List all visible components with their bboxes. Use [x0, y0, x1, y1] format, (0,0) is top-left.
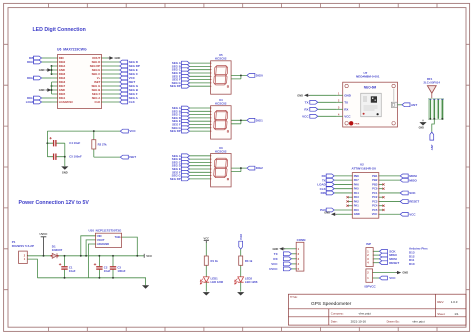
- segment G: [215, 119, 226, 121]
- segment DP: [227, 86, 228, 87]
- svg-text:CLK: CLK: [95, 100, 101, 104]
- segment D: [215, 128, 226, 130]
- regulator U10 body: [95, 233, 122, 247]
- wire output rail to VCC: [59, 255, 145, 257]
- node SEG D (net flag, U6 right): [102, 60, 139, 64]
- svg-text:LOAD/CS#: LOAD/CS#: [59, 100, 74, 104]
- node SEG E (net flag, U5 left pin): [172, 74, 211, 78]
- svg-text:GND: GND: [273, 247, 279, 251]
- diode D1 symbol: [51, 253, 59, 258]
- segment A: [216, 110, 227, 112]
- ground flag (LED2): [237, 292, 244, 295]
- node CLK (net flag, U6 right): [102, 100, 136, 104]
- ground rail: [37, 278, 145, 285]
- ground flag at U6 pin GND (row 9): [39, 88, 53, 92]
- svg-text:PA1: PA1: [354, 204, 360, 208]
- svg-text:PA4: PA4: [354, 191, 360, 195]
- connector P1 body: [19, 251, 28, 263]
- svg-text:VCC: VCC: [271, 262, 278, 266]
- svg-text:U10 NCP1117ST50T3G: U10 NCP1117ST50T3G: [89, 228, 123, 232]
- node SCK (net flag, U2 right): [379, 191, 417, 195]
- segment D: [215, 176, 226, 178]
- wire P1 pin2 to input rail: [27, 255, 51, 257]
- node SEG G (net flag, U6 right): [102, 84, 139, 88]
- svg-text:DIN: DIN: [321, 191, 326, 195]
- node SEG G (net flag, U4 left pin): [172, 126, 211, 130]
- segment E: [214, 121, 216, 129]
- power LED on module: [349, 121, 353, 125]
- filter block of RF1: [428, 98, 443, 119]
- svg-text:R1 1k: R1 1k: [211, 259, 219, 263]
- wire U6 GND bracket rows 7-10: [51, 82, 53, 94]
- svg-text:TX: TX: [274, 252, 278, 256]
- title block text: [290, 296, 459, 323]
- svg-text:100nF: 100nF: [117, 269, 125, 273]
- segment F: [214, 159, 216, 167]
- svg-text:PC4: PC4: [372, 204, 378, 208]
- svg-text:ATTINY1634R-SU: ATTINY1634R-SU: [352, 166, 377, 170]
- svg-text:Drawn By:: Drawn By:: [387, 320, 400, 324]
- svg-text:SEG DP: SEG DP: [170, 129, 181, 133]
- svg-text:2LC+55F014: 2LC+55F014: [424, 80, 441, 84]
- svg-text:VCC: VCC: [389, 276, 396, 280]
- svg-text:vlrm.prjct: vlrm.prjct: [359, 312, 371, 316]
- ground flag at U7 GND: [297, 93, 336, 97]
- svg-text:PB1: PB1: [372, 174, 378, 178]
- svg-text:10uF: 10uF: [69, 269, 76, 273]
- wire LED to ground: [240, 282, 242, 291]
- segment G: [215, 74, 226, 76]
- svg-text:DIG0: DIG0: [27, 60, 34, 64]
- node SCK (net flag, ISP pin 1): [373, 249, 396, 253]
- node DIN (net flag, U2 left): [321, 191, 353, 195]
- junction (common cathode U5): [240, 74, 242, 76]
- svg-text:ANT: ANT: [411, 103, 417, 107]
- segment B: [226, 112, 228, 120]
- svg-text:PA6: PA6: [354, 182, 360, 186]
- svg-text:ISET: ISET: [129, 155, 136, 159]
- wire LED to ground: [205, 282, 207, 291]
- svg-text:TAB: TAB: [115, 235, 120, 239]
- svg-text:KCSC02: KCSC02: [215, 57, 227, 61]
- segment G: [215, 167, 226, 169]
- svg-text:PB3: PB3: [372, 182, 378, 186]
- node DIG0 (net flag, U5 common): [247, 74, 263, 78]
- node MISO (net flag, U2 right): [379, 178, 418, 182]
- svg-text:GND: GND: [62, 171, 68, 175]
- node LOAD (net flag, U2 left): [317, 183, 352, 187]
- svg-text:R2 27k: R2 27k: [98, 143, 107, 147]
- capacitor C3 100nF: [110, 255, 126, 279]
- capacitor C4 10uF: [47, 137, 80, 146]
- IC U6 MAX7219CWG body: [57, 55, 102, 109]
- svg-text:C5 100nF: C5 100nF: [69, 155, 82, 159]
- node SEG B (net flag, U3 left pin): [172, 157, 211, 161]
- svg-text:PC5: PC5: [372, 208, 378, 212]
- GPS module U7 body: [343, 82, 398, 127]
- svg-text:1/1: 1/1: [454, 312, 459, 316]
- power flag VCC (LED1 branch): [204, 237, 210, 243]
- node VCC (net flag, U2 right): [379, 212, 417, 216]
- node SEG A (net flag, U4 left pin): [172, 106, 211, 110]
- svg-text:ISPVCC: ISPVCC: [365, 284, 377, 288]
- svg-text:TX: TX: [344, 100, 348, 104]
- svg-text:DIG0: DIG0: [256, 74, 263, 78]
- node ANT (vertical net flag below RF1): [430, 132, 434, 150]
- svg-text:REV:: REV:: [437, 300, 444, 304]
- no-connect U2 left row 7: [346, 200, 352, 202]
- wire U10 VIN to input rail: [81, 236, 96, 256]
- capacitor C5 100nF: [47, 154, 82, 160]
- svg-text:UVCC: UVCC: [269, 267, 278, 271]
- node RX (net flag, U2 left): [322, 174, 353, 178]
- segment A: [216, 65, 227, 67]
- node TX (net flag, U7): [305, 100, 336, 104]
- svg-text:U6 MAX7219CWG: U6 MAX7219CWG: [57, 48, 87, 52]
- svg-text:Sheet:: Sheet:: [437, 312, 445, 316]
- svg-text:PWR: PWR: [355, 123, 360, 125]
- ground flag at CONN pin 1: [273, 247, 297, 251]
- node SEG C (net flag, U5 left pin): [172, 68, 211, 72]
- svg-text:PA6: PA6: [239, 234, 243, 240]
- node PA6 (vertical net flag, LED2 branch): [239, 234, 243, 250]
- segment E: [214, 76, 216, 84]
- svg-text:PA2: PA2: [354, 199, 360, 203]
- no-connect U2 left row 6: [346, 196, 352, 198]
- svg-text:NEO#M8M-0-001: NEO#M8M-0-001: [356, 75, 380, 79]
- node MISO (net flag, ISP pin 2): [373, 253, 397, 257]
- wire right leg of caps to ground: [64, 143, 66, 166]
- pin 2 TX of U7: [336, 100, 348, 105]
- LED LED2 LED 1206: [235, 277, 258, 285]
- resistor R1 1k: [204, 243, 218, 277]
- ground flag below RF1 filter: [419, 120, 427, 130]
- svg-text:C4 10uF: C4 10uF: [69, 141, 80, 145]
- node SEG C (net flag, U3 left pin): [172, 160, 211, 164]
- node VCC (net flag, CONN pin 4): [271, 262, 296, 266]
- ground flag (C4/C5): [61, 166, 68, 174]
- node DIG1 (net flag, U4 common): [247, 118, 263, 122]
- svg-text:CLK: CLK: [129, 100, 136, 104]
- node MOSI (net flag, ISP pin 3): [373, 257, 397, 261]
- ground flag at U6 pin GND (row 4): [39, 68, 53, 72]
- node ISET (net flag): [120, 155, 136, 159]
- svg-text:ANT: ANT: [430, 144, 434, 150]
- segment B: [226, 159, 228, 167]
- svg-text:MISO: MISO: [409, 178, 417, 182]
- svg-text:PA3: PA3: [354, 195, 360, 199]
- node DIG1 (net flag, U6 left): [27, 96, 51, 100]
- svg-text:VCC: VCC: [204, 237, 210, 241]
- antenna RF1 symbol: [427, 86, 436, 99]
- node SEG F (net flag, U3 left pin): [172, 170, 210, 174]
- title block frame: [288, 294, 466, 325]
- no-connect U2 right row 3: [379, 183, 385, 185]
- svg-text:PB2: PB2: [372, 178, 378, 182]
- svg-text:D10: D10: [409, 262, 415, 266]
- resistor R2 27k: [92, 130, 107, 157]
- no-connect U2 right row 9: [379, 209, 385, 211]
- svg-text:LED Digit Connection: LED Digit Connection: [33, 27, 86, 33]
- segment B: [226, 67, 228, 75]
- svg-text:RU2W1V 5.5-2P: RU2W1V 5.5-2P: [12, 244, 34, 248]
- svg-text:TX: TX: [305, 100, 309, 104]
- node SEG E (net flag, U4 left pin): [172, 119, 211, 123]
- svg-text:KCSC02: KCSC02: [215, 102, 227, 106]
- 7-seg display U5 body: [211, 61, 232, 94]
- ground flag (power section): [142, 285, 149, 288]
- antenna connector on module: [391, 102, 397, 107]
- node RESET (net flag, U2 right): [379, 200, 420, 204]
- svg-text:GPS Speedometer: GPS Speedometer: [311, 301, 352, 307]
- svg-text:ADJ/GND: ADJ/GND: [97, 242, 109, 246]
- svg-text:Company:: Company:: [331, 312, 344, 316]
- node SEG E (net flag, U6 right): [102, 68, 138, 72]
- svg-text:DIG1: DIG1: [256, 118, 263, 122]
- segment C: [225, 76, 227, 84]
- svg-text:GND: GND: [39, 68, 45, 72]
- no-connect U2 right row 8: [379, 205, 385, 207]
- wire U6 left pin stubs: [52, 58, 58, 102]
- svg-text:GND: GND: [402, 271, 408, 275]
- power flag VCC (right of regulator): [144, 254, 152, 258]
- node SEG A (net flag, U5 left pin): [172, 61, 211, 65]
- node UVCC (net flag, CONN pin 5): [269, 267, 296, 271]
- svg-text:PC1: PC1: [372, 191, 378, 195]
- node RESET (net flag, ISP pin 4): [373, 261, 399, 265]
- LED LED1 LED 1206: [200, 277, 223, 285]
- svg-text:UVCC: UVCC: [40, 232, 48, 236]
- svg-text:RESET: RESET: [409, 200, 419, 204]
- svg-text:PB0: PB0: [354, 174, 360, 178]
- no-connect U2 right row 6: [379, 196, 385, 198]
- svg-text:VCC: VCC: [372, 212, 378, 216]
- svg-text:1.0.3: 1.0.3: [451, 300, 458, 304]
- svg-text:VCC: VCC: [302, 114, 309, 118]
- connector CONN body: [296, 242, 304, 271]
- svg-text:KCSC02: KCSC02: [215, 149, 227, 153]
- svg-text:RX: RX: [304, 107, 308, 111]
- node SEG F (net flag, U6 right): [102, 92, 138, 96]
- svg-text:GND: GND: [324, 211, 330, 215]
- node TX (net flag, CONN pin 2): [274, 252, 296, 256]
- svg-text:SEG DP: SEG DP: [170, 177, 181, 181]
- segment DP: [227, 179, 228, 180]
- node SEG DP (net flag, U6 right): [102, 64, 140, 68]
- wire RF1 to ANT flag: [432, 120, 435, 133]
- ground flag at ISPVCC pin 2: [373, 271, 409, 275]
- 7-seg display U4 body: [211, 106, 232, 139]
- svg-text:CONN: CONN: [297, 238, 306, 242]
- svg-text:PA5: PA5: [354, 187, 360, 191]
- u-blox chip on module: [361, 93, 381, 117]
- node RX (net flag, U7): [304, 107, 336, 111]
- svg-text:RX: RX: [273, 257, 277, 261]
- wire U5 common cathode pins: [231, 75, 247, 79]
- no-connect U2 left row 8: [346, 205, 352, 207]
- segment DP: [227, 131, 228, 132]
- svg-text:VCC: VCC: [129, 129, 136, 133]
- node VCC (net flag, C4 block): [120, 129, 136, 133]
- svg-text:VCC: VCC: [409, 212, 416, 216]
- node VCC (net flag, U6 right): [102, 76, 136, 80]
- node SEG F (net flag, U4 left pin): [172, 123, 210, 127]
- svg-text:PA0: PA0: [354, 208, 360, 212]
- pin 3 RX of U7: [336, 107, 348, 112]
- svg-text:ISP: ISP: [366, 242, 371, 246]
- svg-text:LOAD: LOAD: [26, 100, 35, 104]
- node TX (net flag, U2 left): [322, 178, 352, 182]
- node VCC (net flag, ISPVCC pin 1): [373, 276, 397, 280]
- node DIN (net flag, U6 left): [29, 56, 51, 60]
- svg-text:GND: GND: [115, 56, 121, 60]
- wire U10 TAB to output rail: [122, 237, 138, 256]
- node SEG B (net flag, U4 left pin): [172, 109, 211, 113]
- svg-text:Date:: Date:: [331, 320, 338, 324]
- segment A: [216, 158, 227, 160]
- svg-text:DIG2: DIG2: [256, 166, 263, 170]
- svg-text:SCK: SCK: [409, 191, 416, 195]
- svg-text:LED 1206: LED 1206: [245, 280, 258, 284]
- wire U3 common cathode pins: [231, 168, 247, 172]
- segment C: [225, 121, 227, 129]
- node SEG A (net flag, U6 right): [102, 96, 139, 100]
- node SEG DP (net flag, U4 left pin): [170, 129, 211, 133]
- pin 1 GND of U7: [336, 93, 352, 98]
- segment F: [214, 112, 216, 120]
- wire R2 to ISET flag: [94, 156, 121, 158]
- svg-text:PA7: PA7: [354, 178, 360, 182]
- node ISET (net flag, U6 right): [102, 80, 136, 84]
- node SEG D (net flag, U3 left pin): [172, 164, 211, 168]
- node ANT (net flag, U7 antenna): [398, 103, 418, 107]
- segment E: [214, 168, 216, 176]
- ground flag at U2 GND: [324, 211, 352, 216]
- ground flag at U6 DOUT (row 1): [102, 56, 121, 60]
- svg-text:R3 1k: R3 1k: [245, 259, 253, 263]
- resistor R3 1k: [239, 249, 253, 276]
- svg-text:PC2: PC2: [372, 195, 378, 199]
- svg-text:GND: GND: [344, 93, 352, 97]
- svg-text:1N4007: 1N4007: [52, 248, 63, 252]
- power flag UVCC: [40, 232, 48, 257]
- node SEG D (net flag, U5 left pin): [172, 71, 211, 75]
- node SEG E (net flag, U3 left pin): [172, 167, 211, 171]
- node SEG D (net flag, U4 left pin): [172, 116, 211, 120]
- 7-seg display U3 body: [211, 154, 232, 187]
- node SEG DP (net flag, U5 left pin): [170, 84, 211, 88]
- svg-text:RESET: RESET: [389, 261, 399, 265]
- node DIG2 (net flag, U6 left): [27, 76, 51, 80]
- node DIG0 (net flag, U6 left): [27, 60, 51, 64]
- connector ISP body: [366, 248, 374, 267]
- node SEG B (net flag, U5 left pin): [172, 64, 211, 68]
- svg-text:Power Connection 12V to 5V: Power Connection 12V to 5V: [19, 200, 90, 206]
- pin 4 VCC of U7: [336, 114, 351, 119]
- node SEG B (net flag, U6 right): [102, 88, 139, 92]
- segment D: [215, 83, 226, 85]
- MCU U2 body: [352, 173, 380, 219]
- svg-text:TITLE:: TITLE:: [290, 296, 298, 299]
- wire U10 ADJ/GND to ground rail: [88, 244, 95, 278]
- wire U6 GND bracket rows 3-5: [51, 66, 53, 74]
- node SEG A (net flag, U3 left pin): [172, 154, 211, 158]
- capacitor C2 10uF: [94, 255, 111, 279]
- svg-text:2021-10-16: 2021-10-16: [351, 320, 367, 324]
- node SEG C (net flag, U4 left pin): [172, 113, 211, 117]
- node PA0 (net flag, U2): [320, 208, 352, 212]
- node SEG G (net flag, U3 left pin): [172, 174, 211, 178]
- connector ISPVCC body: [366, 269, 373, 282]
- node DIG2 (net flag, U3 common): [247, 166, 263, 170]
- wire U4 common cathode pins: [231, 120, 247, 124]
- node SEG C (net flag, U6 right): [102, 72, 139, 76]
- svg-text:VIN: VIN: [97, 234, 102, 238]
- svg-text:NEO-6M: NEO-6M: [364, 86, 377, 90]
- svg-text:RX: RX: [344, 107, 348, 111]
- svg-text:GND: GND: [419, 127, 425, 130]
- node SEG F (net flag, U5 left pin): [172, 78, 210, 82]
- svg-text:VCC: VCC: [344, 114, 351, 118]
- svg-text:10uF: 10uF: [104, 269, 111, 273]
- wire VCC rail (C4/R2 block): [47, 130, 120, 132]
- node SEG DP (net flag, U3 left pin): [170, 177, 211, 181]
- svg-text:SEG DP: SEG DP: [170, 84, 181, 88]
- no-connect U2 right row 4: [379, 188, 385, 190]
- svg-text:vlrm.prjct: vlrm.prjct: [412, 320, 424, 324]
- ground flag (LED1): [203, 292, 210, 295]
- node CLK (net flag, U2 left): [320, 187, 353, 191]
- svg-text:VOUT: VOUT: [97, 238, 105, 242]
- svg-text:GND: GND: [297, 93, 303, 97]
- segment C: [225, 168, 227, 176]
- svg-text:PC3: PC3: [372, 199, 378, 203]
- node VCC (net flag, U7): [302, 114, 336, 118]
- svg-text:VCC: VCC: [146, 254, 152, 258]
- node MOSI (net flag, U2 right): [379, 174, 417, 178]
- junction (common cathode U4): [240, 119, 242, 121]
- capacitor C1 10uF: [59, 255, 76, 279]
- junction (common cathode U3): [240, 167, 242, 169]
- wire left leg to caps: [46, 131, 48, 157]
- wire P1 pin1 down to ground rail: [27, 259, 37, 278]
- wire U10 VOUT to output rail: [86, 240, 95, 256]
- node RX (net flag, CONN pin 3): [273, 257, 296, 261]
- node LOAD (net flag, U6 left): [26, 100, 52, 104]
- svg-text:DIG2: DIG2: [27, 76, 34, 80]
- svg-text:PC0: PC0: [372, 187, 378, 191]
- svg-text:LED 1206: LED 1206: [211, 280, 224, 284]
- svg-text:GND: GND: [39, 88, 45, 92]
- segment F: [214, 67, 216, 75]
- node SEG G (net flag, U5 left pin): [172, 81, 211, 85]
- svg-text:GND: GND: [354, 212, 360, 216]
